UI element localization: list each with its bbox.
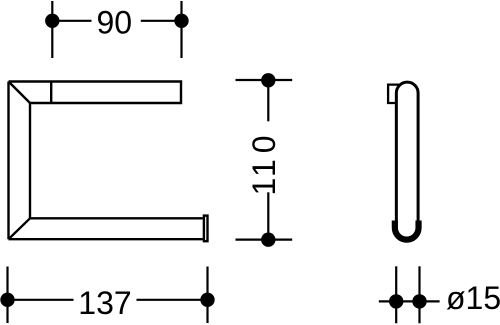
svg-text:90: 90: [97, 4, 133, 40]
svg-text:137: 137: [78, 285, 131, 321]
svg-text:0: 0: [246, 136, 282, 154]
svg-text:ø15: ø15: [446, 280, 500, 316]
svg-text:1: 1: [246, 178, 282, 196]
svg-text:1: 1: [246, 159, 282, 177]
